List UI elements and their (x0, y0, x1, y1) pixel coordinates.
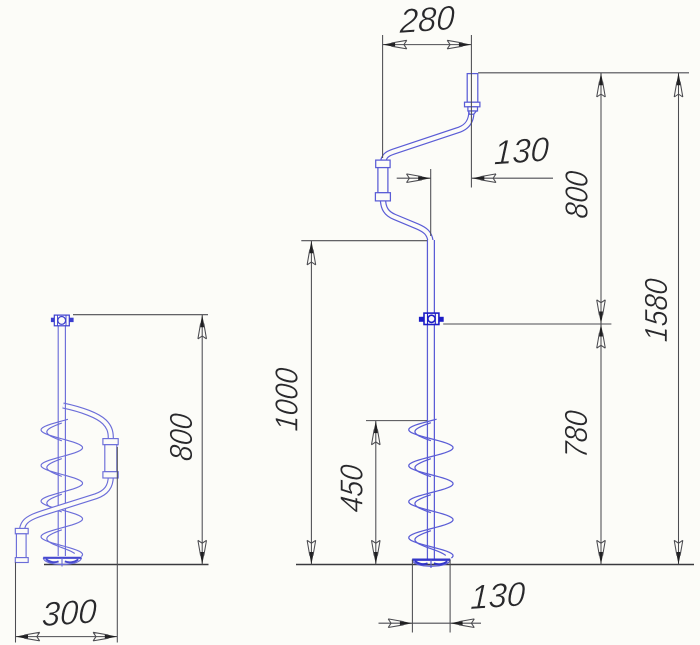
svg-text:780: 780 (559, 409, 594, 460)
baseline under left view (44, 564, 209, 566)
dim 300: dimension line (16, 636, 118, 638)
svg-text:280: 280 (398, 0, 455, 41)
dim 130 top: centerline extension (430, 169, 432, 236)
dim 1000: dimension line (310, 241, 312, 565)
left view: lower grip (15, 528, 28, 562)
left view: bottom blade plate (43, 558, 81, 567)
dim 130 top: arrows (407, 174, 431, 183)
dim 300: extension lines (16, 447, 118, 643)
svg-text:300: 300 (41, 593, 97, 634)
left view: folded auger shaft (58, 326, 65, 556)
baseline under main view (296, 564, 694, 566)
main view: auger helix upper edge (409, 419, 453, 558)
svg-text:800: 800 (165, 412, 200, 463)
main view: crank upper S-tube (383, 112, 472, 165)
left view: handle tube lower bend (22, 476, 111, 533)
dim 800 right / 780: shared dimension line (600, 73, 602, 565)
extension line at coupling (443, 323, 611, 325)
dim 280: dimension line (383, 44, 472, 46)
extension line at helix top (366, 420, 427, 422)
dim 800 left: dimension line (201, 315, 203, 565)
svg-text:1000: 1000 (270, 366, 305, 432)
main view: bottom blade plate (412, 560, 450, 568)
left view: handle tube upper bend (63, 406, 111, 439)
dim 130 top: dimension line (397, 177, 553, 179)
left view: auger helix lower edges (47, 423, 62, 441)
left view: auger helix upper edge (41, 419, 83, 556)
dim 1580: dimension line (678, 73, 680, 565)
svg-text:800: 800 (560, 169, 595, 220)
main view: shaft coupling lock (420, 313, 443, 324)
left view: top locking fitting (52, 315, 74, 326)
svg-text:1580: 1580 (639, 277, 674, 343)
main view: top knob (465, 74, 480, 115)
dim 280: extension lines (383, 35, 472, 188)
svg-text:130: 130 (470, 576, 526, 617)
main view: auger helix lower edges (415, 423, 431, 441)
main view: crank lower S-tube (383, 198, 431, 246)
dim 130 bottom: dimension line (379, 622, 482, 624)
top extension line from knob (478, 72, 689, 74)
main view: middle grip (375, 160, 390, 201)
svg-text:130: 130 (493, 131, 549, 172)
svg-text:450: 450 (335, 463, 370, 514)
dim 130 bottom: extension lines (412, 560, 450, 633)
left view top extension line (73, 314, 208, 316)
extension line at tube-shaft joint (301, 240, 427, 242)
left view: upper grip (103, 439, 118, 478)
dim 280: arrows (383, 40, 407, 49)
dim 450: dimension line (375, 421, 377, 565)
main view: shaft (427, 240, 435, 559)
